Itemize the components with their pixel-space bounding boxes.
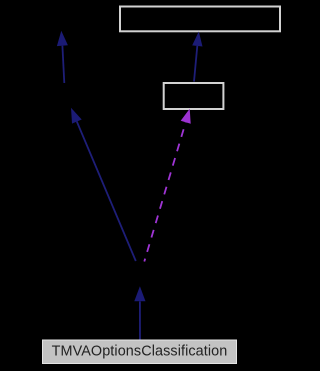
usage arrow dashed purple (junction node to middle box) — [144, 109, 190, 262]
svg-text:TMVAOptionsClassification: TMVAOptionsClassification — [52, 344, 228, 360]
node box top-right (empty label) — [120, 7, 280, 32]
inheritance arrow left (invisible node to invisible node) — [57, 31, 68, 83]
node box TMVAOptionsClassification (current node) — [43, 340, 237, 364]
inheritance arrow bottom vertical (TMVAOptionsClassification to invisible node) — [134, 286, 145, 341]
inheritance arrow diagonal (junction node to invisible left node) — [71, 108, 136, 261]
node box middle (empty label) — [164, 83, 224, 109]
inheritance arrow middle box to top box — [192, 32, 202, 82]
